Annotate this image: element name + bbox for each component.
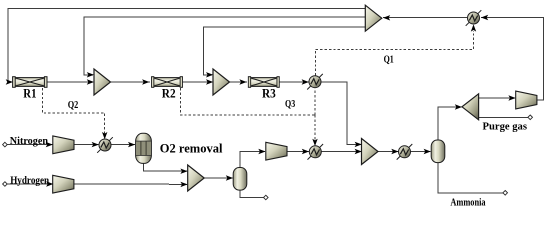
svg-text:Q3: Q3 <box>285 98 296 110</box>
svg-text:Nitrogen: Nitrogen <box>10 136 48 147</box>
svg-text:Ammonia: Ammonia <box>450 197 485 208</box>
svg-text:Purge gas: Purge gas <box>483 121 528 132</box>
svg-text:Q1: Q1 <box>384 54 394 66</box>
svg-text:R1: R1 <box>23 86 36 100</box>
svg-text:R2: R2 <box>162 87 176 101</box>
svg-text:Hydrogen: Hydrogen <box>10 176 49 187</box>
svg-text:Q2: Q2 <box>68 99 79 111</box>
svg-text:R3: R3 <box>262 86 276 100</box>
svg-text:O2 removal: O2 removal <box>160 140 223 155</box>
